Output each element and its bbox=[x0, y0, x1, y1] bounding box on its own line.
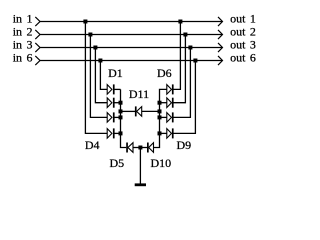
svg-text:in 2: in 2 bbox=[13, 24, 33, 38]
svg-text:D4: D4 bbox=[85, 138, 100, 152]
svg-text:D9: D9 bbox=[177, 138, 192, 152]
svg-text:D10: D10 bbox=[151, 156, 172, 170]
svg-text:in 1: in 1 bbox=[13, 11, 33, 25]
svg-text:out 6: out 6 bbox=[230, 50, 256, 64]
svg-text:D1: D1 bbox=[108, 66, 123, 80]
svg-text:out 3: out 3 bbox=[230, 37, 256, 51]
svg-text:out 1: out 1 bbox=[230, 11, 256, 25]
svg-text:in 6: in 6 bbox=[13, 50, 33, 64]
svg-text:out 2: out 2 bbox=[230, 24, 256, 38]
svg-text:D5: D5 bbox=[110, 156, 125, 170]
svg-text:in 3: in 3 bbox=[13, 37, 33, 51]
svg-text:D11: D11 bbox=[129, 87, 149, 101]
svg-text:D6: D6 bbox=[157, 66, 172, 80]
